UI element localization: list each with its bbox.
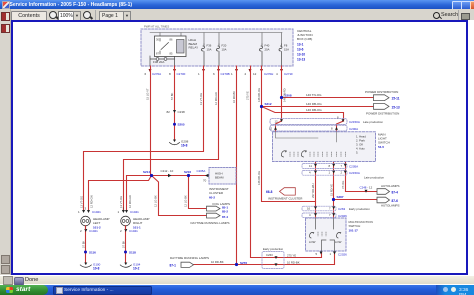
- svg-text:1: 1: [118, 210, 120, 214]
- svg-text:C1021: C1021: [92, 210, 101, 214]
- svg-text:C248 - 12: C248 - 12: [360, 186, 373, 190]
- connector row C2150A below switch: [302, 170, 360, 175]
- wire 146 DB-OG branch to main light switch: [262, 107, 344, 132]
- svg-text:S276: S276: [240, 261, 247, 265]
- connector C1021 left headlamp pins 1,3: [78, 207, 101, 214]
- fuse F36 10A: [202, 44, 212, 67]
- CJB name label and links: [297, 29, 313, 62]
- connector row C263 early production: [302, 206, 370, 211]
- svg-text:Early production: Early production: [349, 207, 370, 211]
- svg-text:7: 7: [341, 164, 343, 168]
- svg-text:101-17: 101-17: [349, 229, 359, 233]
- svg-text:13 VT-OG: 13 VT-OG: [79, 196, 83, 208]
- svg-text:12 RD-GN: 12 RD-GN: [128, 195, 132, 208]
- node S208: [280, 93, 292, 99]
- svg-text:12: 12: [275, 119, 279, 123]
- multifunction switch label: [349, 220, 373, 233]
- daytime running lamps offpage arrow: [170, 256, 209, 267]
- wire label right headlamp low: [119, 196, 123, 208]
- svg-text:3: 3: [85, 207, 87, 211]
- svg-text:C263: C263: [338, 207, 346, 211]
- svg-text:2: 2: [120, 229, 122, 233]
- svg-text:S116: S116: [89, 250, 96, 254]
- svg-text:1: 1: [329, 171, 331, 175]
- svg-text:C270H: C270H: [264, 72, 273, 76]
- switch lever low beam: [309, 232, 326, 244]
- connector pin 2: [245, 69, 252, 76]
- title text: [10, 2, 133, 8]
- svg-text:LOW: LOW: [309, 240, 316, 244]
- wire label right headlamp high: [128, 195, 132, 208]
- svg-text:S118: S118: [129, 250, 136, 254]
- wire label W8 TN-RD: [283, 88, 287, 102]
- svg-text:13-13: 13-13: [297, 58, 305, 62]
- connector pin 1: [231, 69, 238, 76]
- svg-text:87-4: 87-4: [392, 190, 399, 194]
- wire label fog feed 12 LG-BK: [154, 195, 158, 207]
- relay K1 high beam relay: [155, 36, 187, 57]
- svg-text:57 BK: 57 BK: [170, 92, 174, 100]
- power distribution offpage arrow 2: [366, 104, 400, 116]
- late production note lower: [364, 175, 384, 179]
- wire label W7 lower 146 DB-OG: [257, 171, 261, 185]
- wire label VT-OG below switch: [341, 181, 345, 189]
- svg-text:10 RD-BK: 10 RD-BK: [287, 260, 300, 264]
- connector C248 pin 12 on autolamps wire: [360, 186, 373, 193]
- ground G104 under right headlamp: [120, 262, 140, 270]
- wire label 146 DB-OG lower: [306, 108, 322, 112]
- main light switch label: [378, 133, 390, 150]
- node S116 left headlamp ground splice: [84, 250, 96, 254]
- svg-text:16-8: 16-8: [181, 144, 188, 148]
- svg-text:C205A: C205A: [197, 169, 206, 173]
- daytime running lamps offpage arrow B: [191, 213, 230, 225]
- svg-text:DAYTIME RUNNING LAMPS: DAYTIME RUNNING LAMPS: [191, 221, 230, 225]
- svg-text:S205: S205: [178, 123, 185, 127]
- inline connector C238: [167, 110, 186, 114]
- wire label W7 DB-OG: [257, 88, 261, 102]
- multifunction switch box: [306, 218, 347, 251]
- wire S214 branch to left headlamp high beam pin: [89, 176, 152, 211]
- svg-text:146 TN-OG: 146 TN-OG: [306, 93, 322, 97]
- svg-text:RELAY: RELAY: [189, 46, 199, 50]
- svg-text:8: 8: [331, 127, 333, 131]
- svg-text:12 LG-BK: 12 LG-BK: [184, 195, 188, 207]
- node S276: [235, 261, 247, 266]
- svg-text:LEFT: LEFT: [93, 221, 101, 225]
- svg-text:PWR AT ALL TIMES: PWR AT ALL TIMES: [144, 25, 169, 29]
- node S214: [143, 170, 153, 177]
- svg-text:S212: S212: [265, 102, 272, 106]
- svg-text:C212 - 10: C212 - 10: [161, 169, 174, 173]
- svg-text:2: 2: [245, 72, 247, 76]
- main light switch box: [273, 132, 376, 162]
- svg-text:C1021: C1021: [89, 229, 98, 233]
- svg-text:10A: 10A: [222, 47, 227, 51]
- splice nodes: [84, 93, 344, 266]
- svg-text:8: 8: [329, 164, 331, 168]
- svg-text:13 VT-OG: 13 VT-OG: [199, 93, 203, 105]
- title bar: [0, 0, 474, 9]
- svg-text:INSTRUMENT CLUSTER: INSTRUMENT CLUSTER: [268, 196, 303, 200]
- svg-text:S287: S287: [337, 195, 344, 199]
- taskbar: [0, 285, 474, 295]
- svg-text:C2026: C2026: [338, 214, 347, 218]
- instrument cluster label under high beam box: [209, 187, 229, 200]
- task button: [53, 286, 152, 295]
- wire label 275 YE right: [287, 253, 296, 257]
- svg-text:70: 70: [203, 179, 207, 183]
- svg-text:16: 16: [307, 206, 311, 210]
- svg-text:VT-OG: VT-OG: [341, 181, 345, 189]
- svg-text:S216: S216: [184, 170, 191, 174]
- connector row C2026: [302, 213, 347, 218]
- wire W8 C271F through S208 into connector strip: [276, 66, 282, 132]
- connector C263 early production bottom box: [262, 247, 284, 268]
- svg-text:RIGHT: RIGHT: [133, 221, 143, 225]
- fog lamps offpage arrow A: [207, 202, 231, 214]
- svg-text:C205A: C205A: [349, 164, 358, 168]
- wire label W4 RD-GN: [214, 92, 218, 105]
- svg-text:6: 6: [213, 72, 215, 76]
- svg-text:CLUSTER: CLUSTER: [209, 191, 224, 195]
- separator: [95, 10, 96, 20]
- svg-text:54-5: 54-5: [378, 145, 384, 149]
- wire label W6 YE: [246, 91, 250, 100]
- autolamps offpage arrow 2: [377, 197, 399, 207]
- header note PWR AT ALL TIMES: [144, 25, 169, 29]
- wire MLS pin 7 to autolamps arrow 1: [346, 162, 378, 192]
- svg-text:146 DB-OG: 146 DB-OG: [257, 88, 261, 102]
- wire label right ground BK: [121, 240, 125, 248]
- svg-text:1: 1: [330, 252, 332, 256]
- svg-text:AUTOLAMPS: AUTOLAMPS: [381, 184, 399, 188]
- wire label W3 VT-OG: [199, 93, 203, 105]
- wire label left ground BK: [81, 240, 85, 248]
- wire label 10 RD-BK right: [287, 260, 300, 264]
- connector C1041 pin 2 below right headlamp: [120, 226, 138, 233]
- svg-text:C200A: C200A: [349, 127, 358, 131]
- switch lever high beam: [335, 232, 342, 244]
- wire MLS pin 11 down to multifunction switch: [315, 162, 317, 219]
- inline connector strip C200A: [269, 125, 358, 131]
- wire W4 low beam right: down, left, down to right headlamp: [124, 66, 219, 210]
- wire W6 to C263 row and multifunction switch pin 5: [251, 66, 322, 258]
- wire multifunction pin 1 to S276: [237, 251, 335, 265]
- wire label 10 RD-BK left: [211, 260, 224, 264]
- svg-text:57 BK: 57 BK: [121, 240, 125, 248]
- zoom in icon: [83, 11, 91, 19]
- search area: [433, 12, 440, 19]
- node S216: [184, 170, 191, 177]
- node S287: [332, 195, 344, 201]
- wire W1 C270A to S214: [150, 66, 152, 176]
- svg-text:13-1: 13-1: [297, 43, 304, 47]
- svg-text:C270A: C270A: [152, 72, 161, 76]
- svg-text:6: 6: [145, 72, 147, 76]
- wire label left headlamp low VT-OG: [79, 196, 83, 208]
- svg-text:LOW: LOW: [335, 240, 342, 244]
- rotated wire gauge/color labels: [79, 88, 345, 248]
- connector C270F pin 8: [169, 69, 186, 76]
- wire 146 DB-OG to power distribution: [262, 106, 374, 108]
- fuse F38 20A: [150, 56, 175, 66]
- svg-text:15-13: 15-13: [392, 105, 400, 109]
- svg-text:8: 8: [337, 115, 339, 119]
- connector C271F pin 4: [276, 69, 293, 76]
- svg-text:12: 12: [253, 72, 257, 76]
- relay label HIGH BEAM RELAY: [189, 38, 199, 50]
- svg-text:1: 1: [231, 72, 233, 76]
- headlamp left: [81, 216, 110, 229]
- svg-text:10-8: 10-8: [93, 267, 100, 271]
- svg-text:2: 2: [80, 229, 82, 233]
- node S212: [260, 102, 272, 108]
- svg-text:60-2: 60-2: [209, 196, 215, 200]
- svg-text:12 LG-BK: 12 LG-BK: [154, 195, 158, 207]
- wire label left headlamp high: [90, 195, 94, 208]
- connector C1041 right headlamp pins 1,3: [118, 207, 140, 214]
- connector C270B pin 6: [213, 69, 230, 76]
- svg-text:C238: C238: [178, 110, 186, 114]
- svg-text:146 TN-RD: 146 TN-RD: [283, 88, 287, 102]
- zoom out icon: [49, 11, 57, 19]
- inline connector C212 pin 10 on high beam run: [161, 169, 174, 177]
- wire DRL arrow to S276: [194, 264, 237, 266]
- red wiring: [84, 66, 378, 265]
- svg-text:AUTOLAMPS: AUTOLAMPS: [381, 204, 399, 208]
- svg-text:87-4: 87-4: [222, 215, 228, 219]
- wire label RD-WH below switch: [311, 183, 315, 198]
- svg-text:4: 4: [309, 171, 311, 175]
- instrument cluster offpage arrow: [266, 188, 303, 201]
- wire right headlamp ground drop: [125, 227, 127, 263]
- wire S214 diagonal to DRL fog arrow B: [152, 176, 207, 216]
- node S205 on C238 branch: [173, 123, 185, 127]
- svg-text:13-10: 13-10: [297, 53, 305, 57]
- svg-text:10-2: 10-2: [133, 267, 140, 271]
- connector C2026 below multifunction switch: [316, 252, 348, 257]
- svg-text:S214: S214: [143, 170, 150, 174]
- node S118 right headlamp ground splice: [124, 250, 136, 254]
- svg-text:POWER DISTRIBUTION: POWER DISTRIBUTION: [365, 90, 398, 94]
- svg-text:275 YE: 275 YE: [287, 253, 296, 257]
- svg-text:Late production: Late production: [364, 175, 384, 179]
- svg-text:4: 4: [276, 72, 278, 76]
- svg-text:10 RD-BK: 10 RD-BK: [211, 260, 224, 264]
- svg-text:87-1: 87-1: [170, 264, 177, 268]
- wire left headlamp ground drop: [85, 227, 87, 263]
- svg-text:BEAM: BEAM: [215, 176, 224, 180]
- svg-text:7: 7: [329, 206, 331, 210]
- svg-text:1: 1: [78, 210, 80, 214]
- wire W7 via S212 down to junction with switch feed: [262, 66, 316, 202]
- svg-text:10 RD-BK: 10 RD-BK: [232, 91, 236, 103]
- wire high beam indicator run S214-S216-C2054: [152, 175, 210, 177]
- wire 146 TN-OG to power distribution: [282, 97, 374, 99]
- inline connector strip C2150A late production: [270, 115, 383, 124]
- switch position list: [356, 135, 366, 155]
- svg-text:87-6: 87-6: [392, 199, 399, 203]
- switch entry stubs: [316, 218, 334, 229]
- svg-text:15 LG-VT: 15 LG-VT: [146, 88, 150, 100]
- connector row C205A below switch: [302, 164, 358, 169]
- svg-text:85-2: 85-2: [222, 209, 228, 213]
- ground G100 under left headlamp: [80, 262, 100, 270]
- central junction box CJB dashed enclosure: [141, 29, 293, 66]
- wire S287 to autolamps arrow 2: [334, 199, 378, 201]
- wire MLS pin 8 down through S287 to multifunction switch: [333, 162, 335, 219]
- svg-text:DAYTIME RUNNING LAMPS: DAYTIME RUNNING LAMPS: [170, 256, 209, 260]
- left strip: [0, 9, 11, 285]
- high beam indicator box in instrument cluster: [209, 168, 236, 185]
- fuse F8 15A: [279, 44, 289, 67]
- svg-text:C270F: C270F: [177, 72, 186, 76]
- svg-text:66-8: 66-8: [266, 190, 273, 194]
- connector C270H pin 12: [253, 69, 273, 76]
- svg-text:20A: 20A: [265, 47, 270, 51]
- svg-text:C263: C263: [266, 253, 273, 257]
- wire label 146 TN-OG: [306, 93, 322, 97]
- svg-text:10A: 10A: [207, 47, 212, 51]
- svg-text:C270B: C270B: [221, 72, 230, 76]
- wire label W2 BK: [170, 92, 174, 100]
- window buttons: [452, 1, 462, 10]
- svg-text:146 DB-OG: 146 DB-OG: [306, 102, 322, 106]
- title bar app icon: [2, 1, 10, 9]
- svg-text:SWITCH: SWITCH: [378, 141, 390, 145]
- svg-text:POWER DISTRIBUTION: POWER DISTRIBUTION: [366, 112, 399, 116]
- svg-text:SWITCH: SWITCH: [349, 224, 361, 228]
- wire label W1 LG-VT: [146, 88, 150, 100]
- svg-text:57 BK: 57 BK: [81, 240, 85, 248]
- fuse F20 10A: [217, 44, 227, 67]
- connector row below CJB: [145, 69, 294, 76]
- svg-text:C1041: C1041: [130, 210, 139, 214]
- tray: [436, 285, 474, 295]
- svg-text:F38 20A: F38 20A: [153, 60, 164, 64]
- headlamp right: [121, 216, 150, 229]
- wire W2 C270F to ground G208: [174, 66, 176, 140]
- status bar: [0, 275, 474, 285]
- wire label fog feed 2 12 LG-BK: [184, 195, 188, 207]
- svg-text:15 RD-YE: 15 RD-YE: [329, 184, 333, 196]
- switch wafer 1: [281, 151, 298, 157]
- ground G208: [170, 140, 189, 148]
- svg-text:12 RD-GN: 12 RD-GN: [214, 92, 218, 105]
- svg-text:Late production: Late production: [363, 120, 383, 124]
- wire W5 DRL feed to S276: [236, 66, 238, 265]
- wire W3 low beam left: down, left, down to left headlamp: [84, 66, 204, 210]
- svg-text:15-11: 15-11: [392, 97, 400, 101]
- switch internal routing to exit pins: [322, 240, 335, 251]
- svg-text:5.: 5.: [356, 151, 359, 155]
- connector C1021 pin 2 below left headlamp: [80, 226, 98, 233]
- svg-text:C2026: C2026: [338, 253, 347, 257]
- svg-text:12 RD-GN: 12 RD-GN: [90, 195, 94, 208]
- svg-text:275 YE: 275 YE: [246, 91, 250, 100]
- svg-text:13-6: 13-6: [297, 48, 304, 52]
- svg-text:Early production: Early production: [263, 247, 284, 251]
- svg-text:4: 4: [309, 213, 311, 217]
- connector C270A pin 6: [145, 69, 162, 76]
- connector C2054 into instrument cluster: [197, 169, 209, 183]
- svg-text:C1041: C1041: [129, 229, 138, 233]
- wire label 146 DB-OG upper: [306, 102, 322, 106]
- svg-text:5: 5: [316, 252, 318, 256]
- page combo: [99, 11, 127, 21]
- svg-text:297 RD-WH: 297 RD-WH: [311, 183, 315, 198]
- wire label RD-YE below switch: [329, 184, 333, 196]
- svg-text:BOX (CJB): BOX (CJB): [297, 37, 312, 41]
- svg-text:15A: 15A: [284, 47, 289, 51]
- printer icon: [461, 13, 470, 20]
- svg-text:3: 3: [123, 207, 125, 211]
- switch wafer 2: [301, 151, 345, 157]
- CJB internal bus wire: [150, 33, 282, 45]
- svg-text:7: 7: [329, 213, 331, 217]
- svg-text:2: 2: [341, 171, 343, 175]
- svg-text:C2150A: C2150A: [349, 171, 360, 175]
- wire S214 to right headlamp high beam pin: [127, 176, 152, 211]
- svg-text:13 VT-OG: 13 VT-OG: [119, 196, 123, 208]
- switch internal routing: [276, 132, 337, 142]
- svg-text:8: 8: [169, 72, 171, 76]
- connector pin 1: [198, 69, 205, 76]
- contents button: [11, 11, 47, 22]
- fuse F40 20A: [260, 44, 270, 67]
- wire S216 drop to fog lamps arrow A: [189, 176, 207, 209]
- svg-text:146 DB-OG: 146 DB-OG: [257, 171, 261, 185]
- power distribution offpage arrow 1: [365, 90, 400, 101]
- toolbar row: [0, 9, 474, 22]
- svg-text:1: 1: [198, 72, 200, 76]
- svg-text:11: 11: [309, 164, 312, 168]
- svg-text:C271F: C271F: [284, 72, 293, 76]
- autolamps offpage arrow 1: [377, 184, 399, 194]
- zoom combo: [58, 11, 76, 21]
- svg-text:C2150A: C2150A: [349, 120, 360, 124]
- start button: [0, 285, 48, 295]
- svg-text:12: 12: [269, 127, 273, 131]
- svg-text:146 DB-OG: 146 DB-OG: [306, 108, 322, 112]
- svg-text:82: 82: [167, 110, 171, 114]
- wire label W5 RD-BK: [232, 91, 236, 103]
